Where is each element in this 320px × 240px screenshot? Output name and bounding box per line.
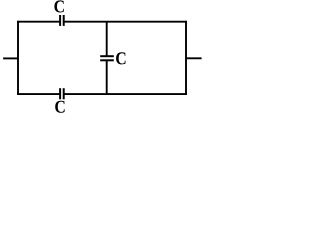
node: left terminal stub — [3, 57, 18, 59]
wire: middle branch upper — [106, 22, 108, 57]
label C1 value — [54, 0, 63, 12]
wire: left side — [17, 21, 19, 95]
capacitor C1 plates (top) — [60, 15, 64, 26]
wire: top side, left of C1 — [17, 21, 60, 23]
wire: middle branch lower — [106, 60, 108, 94]
wire: bottom side, right of C3 — [64, 93, 187, 95]
node: right terminal stub — [186, 57, 202, 59]
wire: top side, right of C1 — [64, 21, 187, 23]
wire: bottom side, left of C3 — [17, 93, 60, 95]
capacitor C2 plates (middle) — [100, 56, 114, 60]
label C3 value — [55, 101, 64, 113]
capacitor C3 plates (bottom) — [60, 88, 64, 99]
label C2 value — [116, 52, 125, 64]
wire: right side — [185, 21, 187, 95]
